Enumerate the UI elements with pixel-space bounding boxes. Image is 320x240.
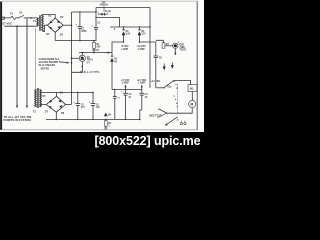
- rail r3 y27: [110, 26, 150, 28]
- node ground C1: [79, 40, 81, 42]
- wire bridge2 top vertex stub: [56, 92, 58, 96]
- svg-text:+5 VDC: +5 VDC: [121, 46, 129, 48]
- node C2 top corner: [95, 11, 97, 13]
- svg-text:T1 4A: T1 4A: [105, 10, 112, 13]
- transistor Q2: [72, 53, 86, 67]
- node ground R2: [93, 40, 95, 42]
- wire bridge1 plus output: [63, 24, 71, 26]
- svg-text:12V: 12V: [141, 34, 146, 36]
- svg-text:TO ALL +5 V PTS: TO ALL +5 V PTS: [80, 71, 100, 74]
- zener D5: [111, 56, 118, 89]
- arrow small down b: [171, 63, 173, 69]
- svg-text:POINTS IN SYSTEM: POINTS IN SYSTEM: [3, 118, 31, 122]
- capacitor C7: [113, 90, 121, 120]
- LED D10: [173, 41, 181, 54]
- wire U-route +5: [112, 42, 124, 56]
- wire T2 secondary top to rail: [41, 91, 57, 93]
- node top rail C1: [79, 11, 81, 13]
- capacitor C5: [73, 92, 85, 119]
- node rail92 x71.8: [71, 92, 73, 94]
- node D3 out: [123, 41, 125, 43]
- node junction neutral: [16, 25, 18, 27]
- wire terminal rail y89.5: [112, 89, 142, 91]
- svg-text:117 VAC: 117 VAC: [1, 22, 12, 26]
- wire secondary bottom to bridge left: [43, 25, 48, 31]
- transformer T1 primary: [37, 18, 39, 26]
- svg-text:1 AMP: 1 AMP: [138, 48, 145, 51]
- node Q1 tap: [103, 7, 104, 8]
- ground symbol R1: [104, 128, 108, 129]
- node junction on hot wire: [30, 17, 32, 19]
- svg-text:1 AMP: 1 AMP: [138, 82, 146, 85]
- wire U-route +12: [139, 42, 155, 56]
- capacitor C6: [89, 92, 101, 119]
- node bridge1 out on main vline: [71, 24, 73, 26]
- node r3 D4: [139, 26, 141, 28]
- wire rail y17.5: [96, 18, 120, 28]
- notes text block: [39, 58, 60, 70]
- arrowhead down right: [26, 106, 28, 109]
- node y17.5 x96: [95, 17, 96, 18]
- wire AC neutral bottom: [4, 25, 37, 27]
- wire main vertical bus x71.5: [71, 12, 73, 104]
- node bottom R1: [105, 119, 107, 121]
- wire top bypass rail y7.5: [96, 7, 150, 9]
- node Q2 base: [71, 58, 73, 60]
- wire bridge1 minus to ground rail: [54, 32, 56, 40]
- arrowhead +12VDC: [141, 85, 143, 88]
- ground rail: [55, 40, 96, 42]
- meter M1 circle: [189, 100, 196, 107]
- node ground Q2 column: [71, 40, 73, 42]
- diode D1 series element: [98, 11, 107, 15]
- arrowhead +5VDC: [124, 85, 126, 88]
- output arrow +12VDC: [141, 86, 143, 89]
- bridge rectifier BR1: [47, 18, 63, 32]
- switch S2a: [163, 81, 173, 89]
- wire LED feed: [156, 40, 164, 42]
- gang link S2 dashed: [177, 84, 179, 114]
- svg-text:LM317: LM317: [92, 50, 100, 52]
- paper background: [0, 0, 204, 132]
- switch S1: [18, 15, 25, 18]
- node rail92 C6: [92, 92, 94, 94]
- node rail92 C5: [77, 92, 79, 94]
- capacitor C1: [76, 12, 88, 41]
- resistor R1 below rail: [104, 119, 112, 128]
- wire bridge2 plus up: [66, 103, 72, 105]
- svg-text:S1: S1: [19, 10, 23, 14]
- transformer T2 secondary: [40, 89, 42, 107]
- arrow small down a: [163, 64, 165, 70]
- node bottom x139.8: [139, 119, 141, 121]
- transformer T1 secondary: [42, 15, 44, 32]
- wire S2a to meter box: [173, 81, 190, 85]
- note arrow to x71: [59, 61, 68, 64]
- output jacks J1 J2: [180, 121, 186, 125]
- arrowhead down left: [16, 106, 18, 109]
- diode D4 branch: [138, 27, 146, 42]
- node bottom bridge2: [56, 119, 58, 121]
- wire drop to 117VAC points left: [16, 26, 18, 106]
- rail low dc y92.4: [57, 91, 94, 93]
- node r3 x150: [149, 26, 151, 28]
- frame border top: [2, 0, 198, 2]
- contact dots S2a: [174, 81, 178, 89]
- node x71 y62.8: [71, 62, 73, 64]
- switch S2b arm lower: [166, 117, 177, 125]
- wire T2 secondary bottom to bridge2 left: [41, 103, 47, 105]
- wire secondary top to bridge: [43, 15, 56, 19]
- node Q2 emitter: [82, 66, 84, 68]
- frame border bottom: [1, 129, 197, 131]
- svg-text:(SEE TEXT): (SEE TEXT): [149, 115, 162, 117]
- svg-text:S2a: S2a: [167, 86, 172, 88]
- diode D9 near bottom rail: [105, 113, 112, 116]
- output arrow +5VDC: [125, 86, 127, 89]
- arrowhead note: [67, 62, 70, 64]
- node bottom C3: [125, 119, 127, 121]
- frame border right: [196, 1, 198, 130]
- transformer T1 core: [39, 15, 40, 31]
- wire box to meter circle: [191, 92, 193, 101]
- svg-text:TIP31: TIP31: [87, 60, 94, 62]
- svg-text:+12 VDC: +12 VDC: [136, 46, 146, 48]
- svg-text:2200: 2200: [81, 30, 87, 33]
- transformer T2 primary: [35, 89, 37, 107]
- wire x110 drop: [86, 52, 112, 54]
- capacitor C4: [139, 90, 148, 111]
- node C7 top: [114, 89, 115, 90]
- node r3 D3: [123, 26, 125, 28]
- node D4 out: [139, 41, 141, 43]
- capacitor C3: [121, 90, 132, 120]
- fuse F1: [11, 16, 16, 19]
- bridge rectifier BR2: [46, 96, 65, 112]
- meter box M1: [188, 85, 197, 92]
- wire C4 to bottom rail corner: [140, 110, 142, 119]
- wire drop to 117VAC points right: [26, 18, 28, 107]
- node bottom C5: [77, 119, 79, 121]
- svg-text:+12 VDC: +12 VDC: [151, 80, 161, 83]
- wire Q2 emitter down: [72, 66, 83, 72]
- wire regulator rail y52.6: [79, 52, 86, 54]
- bottom rail: [46, 118, 140, 120]
- contact dots S2b: [173, 95, 177, 107]
- diode D3 branch: [122, 27, 130, 42]
- arrowhead LED down: [174, 53, 176, 56]
- AC plug P1: [2, 17, 4, 20]
- wire bridge2 minus down: [55, 112, 57, 119]
- wire drop x150 long: [149, 8, 151, 88]
- svg-text:5.6V: 5.6V: [126, 34, 131, 36]
- switch S2b: [158, 109, 168, 118]
- frame border left: [0, 2, 2, 131]
- wire meter bottom to S2b common: [167, 108, 193, 114]
- resistor R3 LED: [162, 43, 173, 49]
- wire AC hot top: [4, 17, 37, 19]
- svg-text:M: M: [190, 103, 193, 107]
- wire T2 primary feed: [35, 28, 37, 89]
- wire top rail y12: [72, 11, 97, 13]
- resistor R2: [93, 41, 101, 53]
- node y89.5 C3: [125, 89, 127, 91]
- svg-text:5 V: 5 V: [87, 63, 91, 65]
- svg-text:Q1: Q1: [102, 1, 106, 4]
- svg-text:6V: 6V: [114, 61, 117, 63]
- transformer T2 core: [37, 88, 38, 108]
- svg-text:TEXT): TEXT): [180, 50, 187, 52]
- arrowhead S2b arm: [165, 123, 168, 125]
- wire Q1 tap: [103, 8, 105, 12]
- capacitor C8: [153, 56, 162, 88]
- capacitor C2: [92, 8, 101, 41]
- svg-text:M1: M1: [190, 87, 194, 91]
- svg-text:2N3055: 2N3055: [100, 5, 109, 7]
- svg-text:1 AMP: 1 AMP: [121, 48, 128, 51]
- arrow on wire y52: [108, 52, 111, 54]
- wire C8 to switch S2a: [156, 87, 164, 89]
- node bottom C6: [92, 119, 94, 121]
- node R2 bottom: [93, 52, 95, 54]
- svg-text:NOTED: NOTED: [41, 67, 50, 70]
- node Q2 top: [82, 52, 84, 54]
- svg-text:1 AMP: 1 AMP: [122, 82, 130, 85]
